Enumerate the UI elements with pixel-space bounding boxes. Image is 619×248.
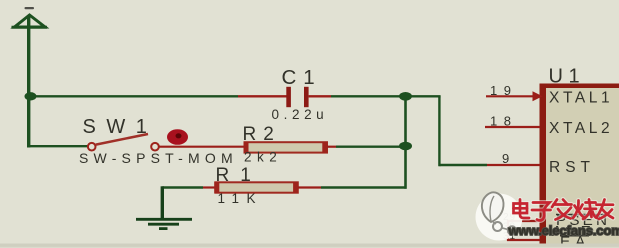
switch button actuator [167,129,188,145]
power symbol [12,15,48,27]
resistor R2 [244,142,337,153]
wire ground to R1 [162,186,203,188]
node junction at power/C1 [25,92,37,100]
svg-text:RST: RST [549,159,595,176]
pin name PSEN with overbar [556,212,610,229]
电 [514,204,528,214]
svg-text:XTAL1: XTAL1 [549,90,613,107]
wire R1 to bus [321,186,407,188]
node junction bus top [399,92,412,101]
发 [552,200,557,208]
svg-text:SW1: SW1 [83,116,158,138]
子 [533,203,550,211]
svg-text:9: 9 [502,151,509,166]
switch SW1 [88,134,159,151]
chip top border [540,84,619,89]
svg-text:XTAL2: XTAL2 [549,120,613,137]
svg-text:R1: R1 [216,165,262,186]
pin 9 RST [487,164,540,166]
wire branch to RST: top [406,95,441,97]
resistor R1 [203,182,321,193]
wire R2 to bus [336,145,406,147]
svg-text:U1: U1 [549,66,586,88]
svg-text:0.22u: 0.22u [272,107,329,122]
svg-text:11K: 11K [218,191,264,206]
wire down to switch [29,145,88,147]
capacitor C1 [238,87,331,107]
node junction bus mid [399,142,412,151]
pin 30 ALE line [507,229,540,231]
wire switch to R2 [159,146,245,148]
svg-text:19: 19 [490,83,517,98]
pin 31 EA line [507,239,540,241]
svg-text:SW-SPST-MOM: SW-SPST-MOM [79,150,238,166]
chip U1 body [540,84,619,248]
svg-text:R2: R2 [243,124,281,145]
watermark text 电子发烧友 (drawn strokes, white halo) [514,200,614,221]
pin 29 PSEN line [507,220,540,222]
bottom edge shade [0,244,619,248]
pin name EA with overbar [560,234,590,248]
ground [136,186,192,228]
wire branch to pin 9 [439,164,487,166]
svg-text:18: 18 [490,114,517,129]
svg-text:2k2: 2k2 [244,150,282,165]
wire C1 to bus [331,95,406,97]
wire bus vertical [404,96,407,188]
svg-text:C1: C1 [282,66,322,89]
svg-text:www.elecfans.com: www.elecfans.com [508,223,619,238]
wire power stem [27,16,30,148]
wire stub joining lower pins [507,220,509,241]
chip left border [540,84,547,248]
watermark logo circle [476,192,523,240]
pin 18 XTAL2 [485,126,540,128]
wire branch vertical [438,96,440,166]
grid origin dash [25,7,35,9]
友 [597,203,614,206]
pin 19 XTAL1 [486,91,543,101]
wire top net to C1 [29,95,238,97]
烧 [573,201,579,219]
